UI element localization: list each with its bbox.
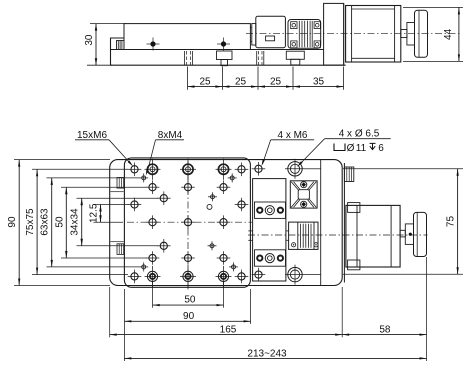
- svg-text:25: 25: [235, 76, 247, 87]
- left end bracket (side view): [111, 38, 125, 50]
- dim 63x63: [51, 178, 53, 267]
- svg-text:44: 44: [443, 28, 454, 40]
- motor mount bracket block (side view): [324, 3, 344, 65]
- screw shaft stubs (plan): [248, 230, 252, 232]
- svg-text:213~243: 213~243: [247, 349, 287, 360]
- motor body (plan): [346, 205, 400, 267]
- svg-text:50: 50: [184, 295, 196, 306]
- base pocket edge line: [320, 160, 322, 286]
- svg-text:90: 90: [7, 216, 18, 228]
- bottom dimension row 25/25/25/35: [187, 67, 189, 90]
- pin hole plain circle: [207, 204, 212, 209]
- stepper motor body (side view): [346, 6, 401, 63]
- base plate (plan): [110, 160, 343, 286]
- drive axis centerline (plan): [248, 234, 428, 236]
- dim 50 bottom: [152, 282, 154, 308]
- hidden mounting hole (dashed) x188: [184, 51, 186, 65]
- left dimension stack extension lines: [14, 159, 110, 161]
- svg-text:75: 75: [446, 216, 457, 228]
- dim 75 right side: [343, 168, 463, 170]
- handwheel rim (side view): [415, 10, 428, 57]
- handwheel hub (side view): [407, 23, 415, 46]
- M6 edge column holes right: [235, 168, 249, 170]
- screw end at carriage edge: [250, 27, 251, 29]
- svg-text:25: 25: [199, 76, 211, 87]
- dim 50 vertical: [65, 187, 67, 258]
- svg-text:12.5: 12.5: [89, 203, 100, 223]
- dim 90 vertical: [18, 160, 20, 286]
- svg-text:75x75: 75x75: [25, 208, 36, 236]
- svg-text:11: 11: [356, 143, 367, 154]
- motor rear shaft (plan): [400, 230, 405, 237]
- svg-text:Ø: Ø: [347, 143, 355, 154]
- wire: extension line top of 30 dim: [90, 23, 126, 25]
- dim 213~243 overall: [124, 357, 426, 359]
- M6 edge column holes left: [128, 168, 142, 170]
- svg-text:90: 90: [183, 311, 195, 322]
- bearing retainer block with corner gussets: [290, 181, 317, 208]
- svg-text:34x34: 34x34: [70, 208, 81, 236]
- boss with screw under base x224: [217, 51, 233, 60]
- dim 90 bottom: [123, 289, 125, 361]
- bearing/nut housing (plan): [253, 179, 286, 281]
- base plate (side view): [110, 38, 112, 65]
- wheel screw dot: [409, 233, 412, 236]
- limit switch bottom (plan): [117, 244, 124, 255]
- carriage top plate (side view): [124, 24, 250, 50]
- coupling (plan) with slits: [289, 222, 318, 249]
- dim 12.5: [100, 205, 102, 223]
- svg-text:30: 30: [84, 34, 95, 46]
- motor bracket right face (plan): [343, 163, 345, 283]
- dimension 44 (motor height): [403, 6, 463, 8]
- centerline horizontal through plate center: [127, 221, 252, 223]
- svg-text:35: 35: [313, 76, 325, 87]
- M6 counterbore holes top row: [145, 168, 161, 170]
- motor connector: [344, 167, 353, 182]
- coupling (side view) with slits: [288, 20, 321, 49]
- block left flange: [252, 24, 256, 46]
- axis centerline (side view): [246, 33, 462, 35]
- limit switch top (plan): [117, 178, 124, 189]
- svg-text:6: 6: [378, 143, 384, 154]
- 15x M6 tapped holes 3x3 grid: [146, 186, 160, 188]
- carriage plate (plan): [124, 158, 250, 287]
- handwheel hub (plan): [405, 224, 413, 245]
- sensor block hatched: [117, 41, 125, 50]
- centerline vertical through hole grid: [187, 161, 189, 291]
- svg-text:25: 25: [270, 76, 282, 87]
- svg-text:50: 50: [54, 216, 65, 228]
- M6 counterbore holes bottom row: [145, 275, 161, 277]
- 4x dia6.5 counterbore holes: [285, 168, 305, 170]
- hidden mounting hole (dashed) x260: [256, 51, 258, 65]
- dim 75x75: [36, 169, 38, 274]
- 34x34 corner M6 holes: [157, 197, 171, 199]
- motor flange tabs (plan): [348, 203, 360, 213]
- 8x M4 holes: [139, 177, 148, 179]
- screw head dot right on carriage side: [221, 41, 226, 46]
- screw head dot left on carriage side: [150, 41, 155, 46]
- handwheel rim (plan): [414, 212, 427, 256]
- clamp block bottom with screws: [255, 250, 286, 266]
- clamp block top with screws: [255, 202, 286, 218]
- svg-text:165: 165: [220, 324, 237, 335]
- dim 34x34: [81, 198, 83, 246]
- svg-text:63x63: 63x63: [40, 208, 51, 236]
- 4x M6 holes right section: [252, 168, 266, 170]
- motor rear shaft: [401, 30, 407, 38]
- dimension 30 (side view height): [87, 64, 112, 66]
- svg-text:58: 58: [379, 324, 391, 335]
- dim 165 and 58: [109, 287, 111, 337]
- boss with screw under base x295: [286, 51, 304, 59]
- svg-text:4 x Ø 6.5: 4 x Ø 6.5: [339, 129, 380, 140]
- bearing block (side view): [256, 16, 286, 47]
